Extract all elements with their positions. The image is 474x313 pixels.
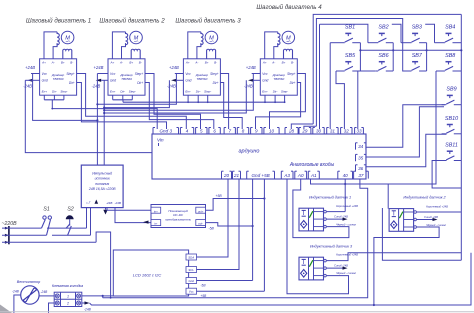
svg-text:En+: En+: [42, 89, 48, 93]
svg-text:40: 40: [343, 173, 349, 178]
svg-text:SB11: SB11: [445, 143, 458, 149]
svg-text:B-: B-: [139, 60, 142, 64]
svg-text:7: 7: [228, 128, 231, 133]
svg-text:SB10: SB10: [445, 116, 458, 122]
svg-text:-5В: -5В: [209, 226, 215, 230]
svg-text:A-: A-: [271, 60, 275, 64]
svg-text:Gnd 3: Gnd 3: [159, 128, 172, 133]
svg-text:-24В: -24В: [12, 290, 20, 294]
svg-text:SDA: SDA: [188, 255, 194, 259]
svg-text:Gnd: Gnd: [262, 79, 268, 83]
svg-text:Dir+: Dir+: [137, 81, 143, 85]
svg-text:-24В: -24В: [92, 83, 101, 88]
svg-text:En+: En+: [110, 89, 116, 93]
svg-text:SB2: SB2: [378, 25, 388, 31]
svg-text:A-: A-: [51, 60, 55, 64]
svg-text:SB1: SB1: [345, 25, 355, 31]
svg-text:31: 31: [330, 128, 336, 133]
svg-text:Индуктивный датчик 1: Индуктивный датчик 1: [309, 196, 351, 200]
svg-text:Vcc: Vcc: [110, 72, 116, 76]
svg-text:А3: А3: [283, 173, 290, 178]
svg-text:A+: A+: [41, 60, 46, 64]
svg-text:преобразователь: преобразователь: [165, 217, 191, 221]
svg-text:Индуктивный датчик 2: Индуктивный датчик 2: [403, 196, 446, 200]
svg-text:SB8: SB8: [445, 53, 455, 59]
svg-text:источник: источник: [95, 177, 111, 181]
svg-text:-24В: -24В: [244, 83, 253, 88]
svg-text:S2: S2: [67, 207, 74, 213]
svg-text:Step+: Step+: [287, 72, 296, 76]
svg-text:35: 35: [358, 156, 364, 161]
svg-text:-24В: -24В: [23, 83, 32, 88]
svg-text:32: 32: [344, 128, 350, 133]
svg-text:36: 36: [358, 166, 364, 171]
svg-text:SB3: SB3: [412, 25, 422, 31]
svg-text:B+: B+: [61, 60, 65, 64]
svg-text:B+: B+: [129, 60, 133, 64]
svg-text:ардуино: ардуино: [239, 149, 260, 155]
svg-text:Gnd: Gnd: [42, 79, 48, 83]
svg-text:Шаговый двигатель 2: Шаговый двигатель 2: [99, 18, 165, 25]
svg-text:En+: En+: [185, 89, 191, 93]
svg-text:Step-: Step-: [281, 89, 288, 93]
svg-text:24В 16,5А ≈220В: 24В 16,5А ≈220В: [88, 187, 116, 191]
svg-text:-24В: -24В: [84, 308, 92, 312]
svg-text:Gnd: Gnd: [110, 79, 116, 83]
svg-text:37: 37: [358, 173, 364, 178]
svg-text:А1: А1: [310, 173, 317, 178]
svg-text:Шаговый двигатель 1: Шаговый двигатель 1: [26, 18, 91, 25]
svg-text:Dir+: Dir+: [213, 81, 219, 85]
svg-text:SB5: SB5: [345, 53, 356, 59]
svg-text:Чёрный - сигнал: Чёрный - сигнал: [336, 271, 357, 275]
svg-text:Dir-: Dir-: [52, 89, 57, 93]
svg-text:20: 20: [223, 173, 230, 178]
svg-text:M: M: [286, 36, 291, 42]
svg-text:out+: out+: [198, 209, 204, 213]
svg-text:Шаговый двигатель 4: Шаговый двигатель 4: [256, 4, 322, 11]
svg-text:Vcc: Vcc: [189, 290, 194, 294]
svg-text:SB9: SB9: [446, 87, 456, 93]
svg-text:10: 10: [269, 128, 275, 133]
svg-text:Вентилятор: Вентилятор: [17, 280, 41, 284]
svg-text:A-: A-: [119, 60, 123, 64]
svg-text:B-: B-: [291, 60, 294, 64]
svg-text:Dir+: Dir+: [69, 81, 75, 85]
svg-text:Vcc: Vcc: [185, 72, 191, 76]
svg-text:-24В: -24В: [114, 201, 120, 205]
svg-text:ТВ6560: ТВ6560: [273, 77, 284, 81]
svg-text:En+: En+: [262, 89, 268, 93]
svg-text:30: 30: [316, 128, 322, 133]
svg-text:ТВ6560: ТВ6560: [196, 77, 207, 81]
svg-text:-24В: -24В: [41, 290, 49, 294]
svg-text:Step-: Step-: [204, 89, 211, 93]
svg-text:Dir-: Dir-: [273, 89, 278, 93]
svg-text:33: 33: [356, 128, 362, 133]
svg-text:1: 1: [67, 295, 69, 299]
svg-text:34: 34: [358, 144, 364, 149]
svg-text:in+: in+: [154, 209, 158, 213]
svg-text:Синий -24В: Синий -24В: [424, 215, 438, 219]
svg-text:A+: A+: [110, 60, 115, 64]
svg-text:питания: питания: [95, 182, 109, 186]
svg-text:2: 2: [66, 302, 69, 306]
svg-text:29: 29: [301, 128, 308, 133]
svg-text:Dir-: Dir-: [120, 89, 125, 93]
svg-text:A+: A+: [185, 60, 190, 64]
svg-text:SCL: SCL: [188, 268, 194, 272]
svg-text:Синий -24В: Синий -24В: [334, 215, 348, 219]
svg-text:A-: A-: [194, 60, 198, 64]
svg-text:LCD 1602 с I2C: LCD 1602 с I2C: [133, 273, 162, 278]
svg-text:B+: B+: [282, 60, 286, 64]
svg-text:+24В: +24В: [25, 65, 35, 70]
svg-text:≈ Г: ≈ Г: [86, 201, 91, 205]
svg-text:Синий -24В: Синий -24В: [334, 264, 348, 268]
svg-text:6: 6: [213, 128, 216, 133]
svg-text:B-: B-: [214, 60, 217, 64]
svg-text:Аналоговые входы: Аналоговые входы: [289, 162, 335, 168]
svg-text:Step+: Step+: [66, 72, 75, 76]
svg-text:21: 21: [233, 173, 240, 178]
svg-text:-24В: -24В: [106, 201, 112, 205]
svg-text:Чёрный - сигнал: Чёрный - сигнал: [426, 223, 447, 227]
svg-text:Step+: Step+: [210, 72, 219, 76]
svg-text:-5В: -5В: [201, 284, 207, 288]
svg-text:28: 28: [288, 128, 295, 133]
svg-text:ТВ6560: ТВ6560: [53, 77, 64, 81]
svg-text:Чёрный - сигнал: Чёрный - сигнал: [336, 222, 357, 226]
svg-text:M: M: [134, 36, 139, 42]
svg-text:B-: B-: [70, 60, 73, 64]
svg-text:ТВ6560: ТВ6560: [121, 77, 132, 81]
svg-text:А0: А0: [297, 173, 304, 178]
svg-text:+24В: +24В: [94, 65, 104, 70]
svg-text:Шаговый двигатель 3: Шаговый двигатель 3: [175, 18, 241, 25]
svg-text:+5В: +5В: [216, 194, 223, 198]
svg-text:Dir+: Dir+: [290, 81, 296, 85]
svg-text:Step-: Step-: [129, 89, 136, 93]
svg-text:4: 4: [186, 128, 189, 133]
svg-text:B+: B+: [205, 60, 209, 64]
svg-text:Step+: Step+: [135, 72, 144, 76]
svg-text:Индуктивный датчик 3: Индуктивный датчик 3: [310, 245, 353, 249]
svg-text:Gnd +5В: Gnd +5В: [251, 173, 269, 178]
svg-text:Клеммная колодка: Клеммная колодка: [52, 284, 83, 288]
svg-text:+24В: +24В: [169, 65, 179, 70]
svg-text:Vin: Vin: [157, 138, 164, 143]
svg-text:+24В: +24В: [246, 65, 256, 70]
svg-text:5: 5: [200, 128, 203, 133]
svg-text:Gnd: Gnd: [185, 79, 191, 83]
svg-text:Импульсный: Импульсный: [92, 172, 112, 176]
svg-text:Step-: Step-: [60, 89, 67, 93]
svg-text:SB7: SB7: [412, 53, 423, 59]
svg-text:Dir-: Dir-: [196, 89, 201, 93]
svg-text:S1: S1: [43, 207, 50, 213]
svg-text:Gnd: Gnd: [188, 279, 194, 283]
svg-text:Vcc: Vcc: [42, 72, 48, 76]
svg-text:Коричневый +24В: Коричневый +24В: [336, 204, 358, 208]
svg-text:+5В: +5В: [201, 294, 208, 298]
svg-text:9: 9: [255, 128, 258, 133]
svg-text:8: 8: [242, 128, 245, 133]
svg-text:in-: in-: [154, 222, 157, 226]
svg-text:M: M: [65, 36, 70, 42]
svg-text:A+: A+: [262, 60, 267, 64]
svg-text:out-: out-: [198, 222, 203, 226]
svg-text:SB6: SB6: [378, 53, 388, 59]
svg-text:SB4: SB4: [445, 25, 455, 31]
svg-text:Коричневый +24В: Коричневый +24В: [426, 204, 448, 208]
svg-text:Vcc: Vcc: [262, 72, 268, 76]
svg-text:M: M: [209, 36, 214, 42]
svg-text:-24В: -24В: [167, 83, 176, 88]
